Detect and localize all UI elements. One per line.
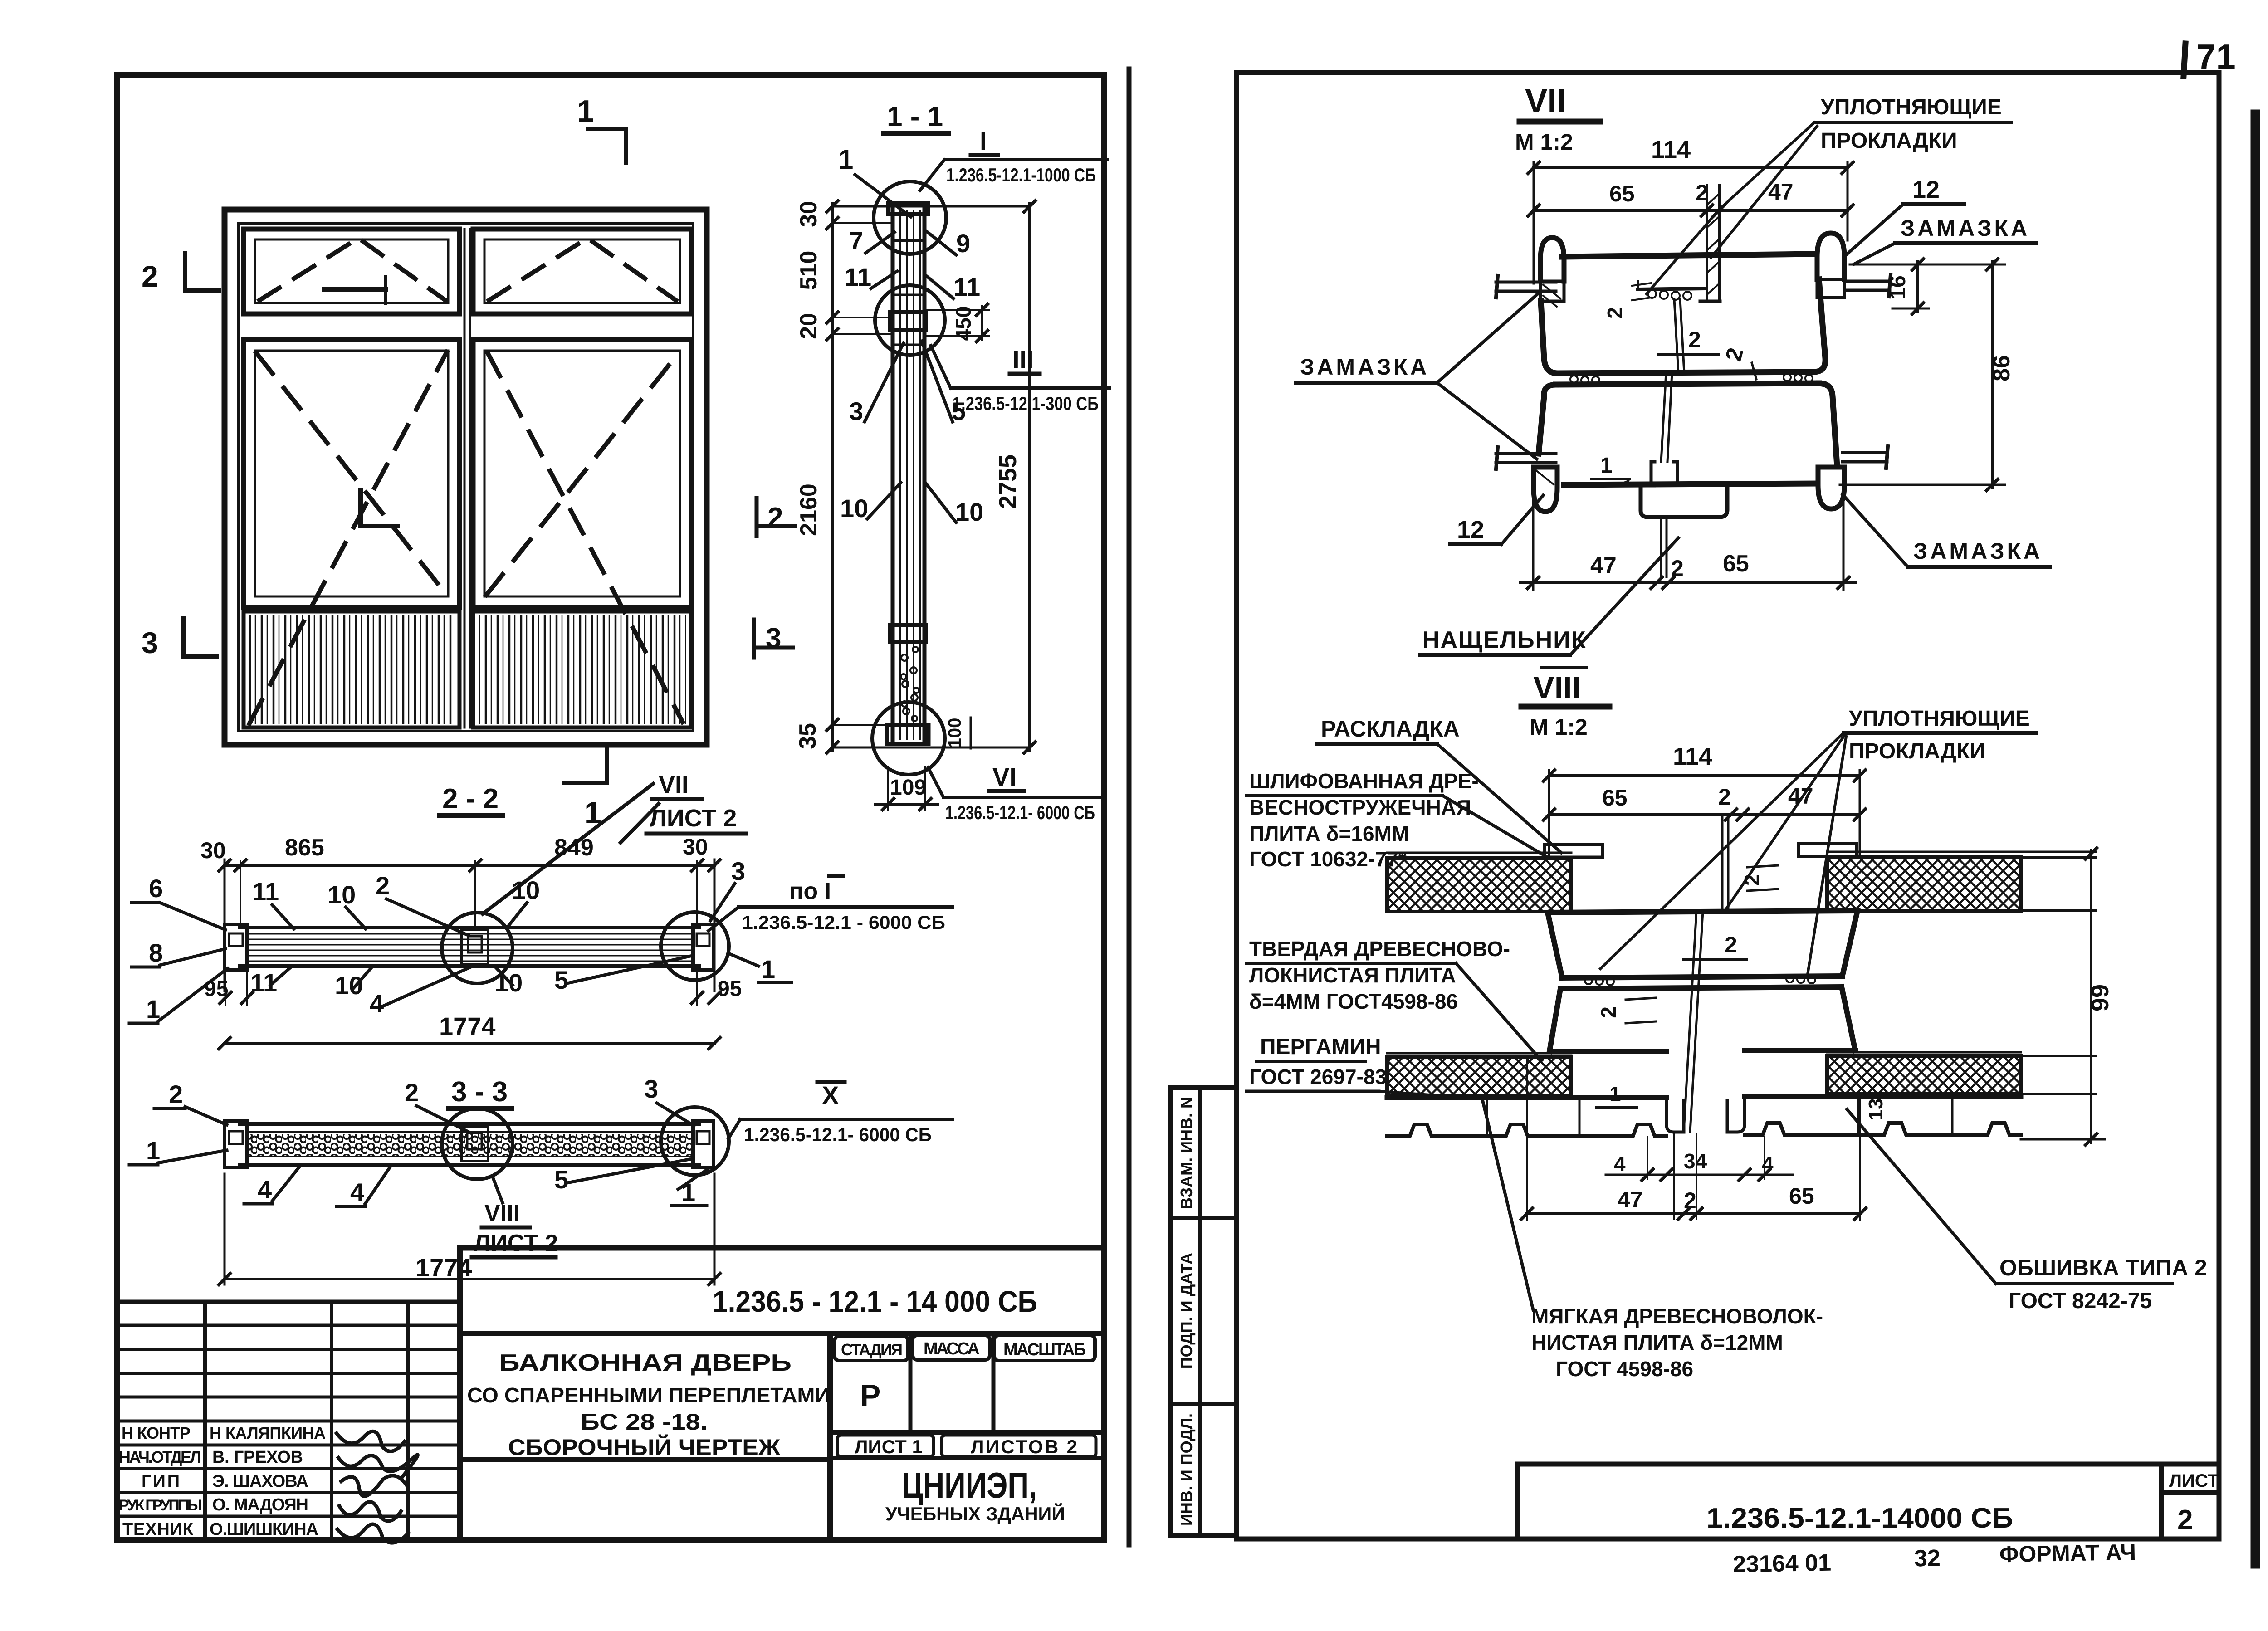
dim 114 VII [1527,136,1854,283]
left table rows [117,1325,460,1516]
label 2 center 3-3 [405,1078,471,1133]
center mullion [464,229,470,728]
label 5 [922,341,966,425]
svg-text:Р: Р [860,1378,880,1413]
svg-text:НАЧ.ОТДЕЛ: НАЧ.ОТДЕЛ [119,1448,201,1466]
svg-text:Н КОНТР: Н КОНТР [122,1424,191,1442]
label 4 left 3-3 [244,1166,300,1204]
label 95 right [690,971,742,1005]
svg-text:ШЛИФОВАННАЯ ДРЕ-: ШЛИФОВАННАЯ ДРЕ- [1249,769,1479,793]
row TEKHNIK [122,1520,318,1539]
svg-text:3 - 3: 3 - 3 [451,1076,508,1108]
svg-text:VII: VII [1525,82,1566,120]
dim 1774 of 2-2 [218,1012,721,1050]
sheathing planks bottom [1387,1097,2021,1136]
top board left (chipboard) [1387,853,1571,912]
label 10 bottom left [335,966,373,1000]
gasket bumps VIII [1585,975,1815,985]
svg-text:РУК ГРУППЫ: РУК ГРУППЫ [119,1497,202,1514]
dim line right of 1-1 with 2755 [994,200,1036,754]
page number 71 [2184,37,2236,77]
svg-text:12: 12 [1912,176,1940,203]
outer right thick line [2251,114,2260,1564]
section mark 2 right [757,498,795,536]
small dim 1 bottom VIII [1597,1082,1637,1108]
svg-text:30: 30 [683,834,708,859]
svg-text:99: 99 [2087,984,2114,1011]
svg-text:1: 1 [146,995,160,1023]
label obshivka tipa 2 [1847,1109,2207,1313]
label 3 [849,343,904,425]
svg-text:СО СПАРЕННЫМИ ПЕРЕПЛЕТАМИ: СО СПАРЕННЫМИ ПЕРЕПЛЕТАМИ [467,1383,830,1407]
main right door panel [473,339,691,607]
right sheet sidebar [1170,1088,1237,1535]
label 11 right [926,273,980,301]
left screw top [1496,276,1556,298]
svg-text:2: 2 [1671,556,1684,581]
label 4 bottom 2-2 [370,967,471,1018]
svg-text:ТЕХНИК: ТЕХНИК [122,1520,194,1539]
svg-text:65: 65 [1789,1183,1814,1209]
label 11 bottom [250,966,292,997]
svg-text:71: 71 [2196,37,2236,77]
svg-text:ИНВ. И ПОДЛ.: ИНВ. И ПОДЛ. [1177,1413,1196,1526]
svg-text:СТАДИЯ: СТАДИЯ [841,1340,903,1359]
top sash right bead [1817,233,1844,298]
handwritten notes below [1732,1539,2136,1578]
2-2 panel strip [240,928,699,966]
svg-text:2: 2 [767,502,783,533]
svg-text:65: 65 [1602,785,1628,811]
label myagkaya plita [1482,1099,1823,1381]
title text block [460,1350,830,1460]
VIII profile upper part [1548,911,1857,978]
svg-text:ЦНИИЭП,: ЦНИИЭП, [902,1465,1037,1505]
label 1 left 2-2 [129,968,228,1023]
svg-text:5: 5 [554,1165,568,1194]
label 1 right 2-2 [728,953,792,983]
dim 86 [1840,258,2015,492]
label 95 left [204,971,254,1005]
section mark 3 right [754,620,793,658]
signature scribbles [337,1431,418,1543]
organization name [885,1465,1065,1524]
callout X 6000SB [728,1081,953,1145]
svg-text:Э. ШАХОВА: Э. ШАХОВА [212,1472,308,1491]
svg-text:ВЗАМ. ИНВ. N: ВЗАМ. ИНВ. N [1177,1097,1196,1209]
svg-text:95: 95 [718,977,742,1001]
svg-text:1.236.5-12.1-14000 СБ: 1.236.5-12.1-14000 СБ [1706,1503,2013,1534]
raskladka tab right [1799,844,1857,856]
svg-text:СБОРОЧНЫЙ ЧЕРТЕЖ: СБОРОЧНЫЙ ЧЕРТЕЖ [508,1434,781,1460]
svg-text:12: 12 [1457,516,1484,543]
svg-text:1.236.5-12.1- 6000 СБ: 1.236.5-12.1- 6000 СБ [744,1124,932,1145]
svg-text:ЗАМАЗКА: ЗАМАЗКА [1300,354,1429,380]
svg-text:ТВЕРДАЯ ДРЕВЕСНОВО-: ТВЕРДАЯ ДРЕВЕСНОВО- [1249,937,1510,961]
dim 450 bracket [926,303,989,343]
3-3 insulated strip [240,1124,699,1165]
svg-text:δ=4ММ ГОСТ4598-86: δ=4ММ ГОСТ4598-86 [1249,990,1458,1013]
svg-text:11: 11 [252,877,279,906]
label 12 bottom left VII [1450,495,1543,544]
svg-text:1: 1 [577,94,594,128]
svg-text:1.236.5-12.1-1000 СБ: 1.236.5-12.1-1000 СБ [946,164,1096,186]
svg-text:849: 849 [554,835,594,861]
lower left bead VII [1534,467,1557,512]
svg-text:1.236.5-12.1-300 СБ: 1.236.5-12.1-300 СБ [953,393,1099,414]
svg-text:4: 4 [370,989,384,1018]
svg-text:1: 1 [1600,454,1613,478]
svg-text:8: 8 [149,938,163,967]
svg-text:МАСШТАБ: МАСШТАБ [1003,1340,1086,1359]
svg-text:О.ШИШКИНА: О.ШИШКИНА [210,1520,318,1539]
svg-text:УПЛОТНЯЮЩИЕ: УПЛОТНЯЮЩИЕ [1821,95,2002,119]
label uplotnyayushchie prokladki VII [1647,95,2011,294]
right title bar [1517,1464,2219,1539]
svg-text:1774: 1774 [415,1253,472,1282]
2-2 center block [462,930,488,964]
bottom slat band right [473,611,691,728]
label 3 right 3-3 [644,1074,694,1126]
svg-text:2: 2 [376,871,390,900]
svg-text:ЛИСТ 2: ЛИСТ 2 [474,1230,558,1256]
section 1 cut mark in transom [324,277,386,303]
svg-text:3: 3 [142,626,158,659]
svg-text:ПЕРГАМИН: ПЕРГАМИН [1260,1035,1381,1059]
stadia massa masshtab section [830,1333,1104,1540]
parting glass strip upper [1674,299,1684,373]
left table verticals [205,1302,408,1540]
svg-text:БС 28 -18.: БС 28 -18. [581,1409,708,1435]
detail VIII title [1521,668,1609,740]
right screw bottom [1843,446,1888,468]
small dim 2 top VIII [1740,865,1778,891]
svg-text:109: 109 [890,776,926,800]
svg-text:47: 47 [1590,552,1617,579]
section mark 3 left [142,619,217,659]
svg-text:РАСКЛАДКА: РАСКЛАДКА [1321,716,1460,742]
svg-text:МАССА: МАССА [924,1339,980,1358]
svg-text:О. МАДОЯН: О. МАДОЯН [212,1495,308,1514]
svg-text:47: 47 [1788,783,1813,809]
svg-text:2: 2 [1597,1006,1620,1018]
doc number header [460,1284,1104,1333]
label 11 left [845,263,897,291]
svg-text:32: 32 [1914,1545,1941,1572]
svg-text:3: 3 [731,857,745,885]
label 1 left 3-3 [129,1136,227,1165]
svg-text:НИСТАЯ ПЛИТА δ=12ММ: НИСТАЯ ПЛИТА δ=12ММ [1531,1331,1783,1354]
svg-text:VIII: VIII [484,1200,520,1226]
transom right panel [473,229,691,314]
svg-text:30: 30 [200,838,226,863]
label 4 center 3-3 [337,1166,391,1206]
transom left panel [244,229,459,314]
svg-text:10: 10 [512,876,540,904]
svg-text:1.236.5-12.1 - 6000 СБ: 1.236.5-12.1 - 6000 СБ [742,912,945,933]
left table outer top [117,1300,460,1304]
svg-text:ГОСТ 4598-86: ГОСТ 4598-86 [1556,1357,1693,1381]
label 10 right [925,483,983,526]
label uplotnyayushchie prokladki VIII [1600,707,2037,974]
svg-text:НАЩЕЛЬНИК: НАЩЕЛЬНИК [1422,627,1586,653]
svg-text:по I: по I [789,878,831,904]
nashchelnik center piece [1641,373,1727,577]
svg-text:МЯГКАЯ ДРЕВЕСНОВОЛОК-: МЯГКАЯ ДРЕВЕСНОВОЛОК- [1531,1304,1823,1328]
svg-text:2755: 2755 [994,454,1022,509]
svg-text:114: 114 [1651,136,1691,163]
dim 47 2 65 bottom VII [1520,491,1856,590]
dim line left of 1-1 [826,200,1030,754]
dim 65 2 47 VII [1527,179,1854,217]
svg-text:X: X [822,1081,839,1109]
svg-text:47: 47 [1618,1187,1643,1212]
svg-text:ФОРМАТ АЧ: ФОРМАТ АЧ [1999,1539,2136,1567]
svg-text:I: I [980,127,987,155]
raskladka tab left [1545,845,1603,857]
svg-text:VI: VI [992,762,1017,791]
3-3 left end cap [225,1121,247,1167]
label 7 [849,226,894,255]
door elevation outer frame [225,210,707,745]
svg-text:2: 2 [1688,327,1701,352]
svg-text:4: 4 [1614,1152,1626,1176]
label 10 top left [327,880,366,929]
detail circle III middle [875,285,945,355]
label nashchelnik [1420,538,1678,655]
svg-text:БАЛКОННАЯ ДВЕРЬ: БАЛКОННАЯ ДВЕРЬ [499,1350,792,1376]
section mark 1 top [577,94,626,162]
label 9 [925,229,970,258]
2-2 right end cap [693,924,714,970]
label pergamin [1246,1035,1481,1099]
label 2 top 2-2 [376,871,468,935]
small dim 2 left rot VIII [1597,998,1656,1023]
2-2 top dim line [218,859,721,991]
dim 1774 of 3-3 [218,1174,721,1286]
title block header line [460,1248,1104,1540]
svg-text:5: 5 [554,966,568,994]
svg-text:ПРОКЛАДКИ: ПРОКЛАДКИ [1849,739,1985,763]
top sash left bead [1540,238,1564,307]
svg-text:УПЛОТНЯЮЩИЕ: УПЛОТНЯЮЩИЕ [1849,707,2030,731]
left sheet border [117,75,1104,1540]
svg-text:ЛИСТ: ЛИСТ [2169,1471,2219,1491]
2-2 left end cap [225,924,247,970]
svg-text:Н КАЛЯПКИНА: Н КАЛЯПКИНА [210,1424,326,1442]
svg-text:7: 7 [849,226,863,255]
svg-text:1: 1 [838,144,853,175]
svg-text:ПЛИТА δ=16ММ: ПЛИТА δ=16ММ [1249,822,1409,845]
3-3 center block [462,1127,488,1161]
svg-text:2: 2 [169,1080,183,1108]
label tvyordaya plita [1246,937,1541,1060]
svg-text:2: 2 [1718,784,1731,810]
svg-text:ЛОКНИСТАЯ ПЛИТА: ЛОКНИСТАЯ ПЛИТА [1249,963,1456,987]
svg-text:3: 3 [644,1074,658,1103]
VIII profile lower part [1549,987,1855,1051]
2-2 center detail circle [442,913,513,983]
svg-text:510: 510 [796,251,822,290]
row RUK GRUPPY [119,1495,308,1514]
callout I 1000SB [920,127,1107,190]
label 10 top right [507,876,540,928]
glass strip VIII [1684,816,1728,1132]
svg-text:9: 9 [956,229,970,258]
left leaf dashed diagonals [249,352,447,723]
section 2-2 title [439,783,503,815]
bottom board left [1387,1053,1571,1096]
svg-text:ПРОКЛАДКИ: ПРОКЛАДКИ [1821,129,1957,153]
callout VIII list2 below 3-3 [472,1176,558,1257]
svg-text:ЛИСТ 2: ЛИСТ 2 [650,805,737,832]
svg-text:2: 2 [1603,307,1627,319]
left screw bottom [1496,447,1556,469]
dim 16 [1886,258,1929,315]
label 3 right 2-2 [710,857,745,921]
callout po I 6000SB [709,876,953,933]
svg-text:4: 4 [258,1175,272,1204]
svg-text:2160: 2160 [796,483,822,536]
svg-text:100: 100 [945,718,965,748]
dim 114 VIII [1542,743,1867,857]
svg-text:ПОДП. И ДАТА: ПОДП. И ДАТА [1177,1253,1196,1369]
label raskladka [1317,716,1561,853]
top sash body [1541,279,1825,373]
detail VII title [1515,82,1600,155]
label 1 callout at top circle [838,144,911,217]
3-3 right end cap [693,1121,714,1167]
svg-text:1: 1 [1609,1082,1621,1106]
svg-text:20: 20 [796,313,822,339]
svg-text:11: 11 [953,273,980,301]
label 1 right 3-3 [671,1169,708,1206]
svg-text:10: 10 [327,880,356,909]
row N KONTR [122,1424,326,1442]
detail circle I top [874,181,946,254]
right screw top [1845,275,1891,297]
2-2 right detail circle [661,912,729,980]
dim 99 [2021,847,2114,1146]
svg-text:23164 01: 23164 01 [1733,1550,1832,1578]
section 1-1 frame strip [887,203,929,744]
transom left dashed opening lines [259,238,445,300]
svg-text:ГОСТ 2697-83: ГОСТ 2697-83 [1249,1065,1387,1089]
svg-text:2: 2 [2177,1504,2193,1536]
label shlifovannaya plita [1246,769,1546,871]
svg-text:11: 11 [845,263,871,291]
svg-text:ЛИСТОВ 2: ЛИСТОВ 2 [971,1436,1077,1457]
3-3 center detail circle [442,1108,513,1179]
section mark 1 bottom [564,745,607,830]
svg-text:ГИП: ГИП [142,1472,180,1491]
dim 100 bottom right of strip [945,718,971,748]
svg-text:УЧЕБНЫХ ЗДАНИЙ: УЧЕБНЫХ ЗДАНИЙ [885,1503,1065,1524]
label zamazka bottom right [1843,494,2050,567]
top sash top face [1562,254,1816,257]
gasket bumps between sashes [1570,374,1813,384]
glazing step shelf [1638,281,1704,300]
svg-text:114: 114 [1673,743,1712,770]
row GIP [142,1472,308,1491]
svg-text:34: 34 [1684,1149,1707,1173]
label zamazka top right [1854,215,2037,264]
dim 4 34 4 [1606,1137,1793,1182]
row NACH OTDEL [119,1448,303,1467]
section mark 2 left [142,253,219,293]
small dim 2 mid VIII [1684,932,1746,960]
svg-text:86: 86 [1989,355,2015,381]
svg-text:2: 2 [1725,932,1737,957]
bottom slat band left [244,611,459,728]
transom right dashed opening lines [489,238,676,300]
dim 47 2 65 VIII [1520,1057,1867,1221]
svg-text:М 1:2: М 1:2 [1515,129,1573,155]
dim 65 2 47 VIII [1542,783,1867,821]
callout VI 6000SB [928,762,1102,823]
svg-text:ГОСТ 8242-75: ГОСТ 8242-75 [2009,1289,2152,1313]
central channel top VII [1700,185,1720,301]
svg-text:1.236.5-12.1- 6000 СБ: 1.236.5-12.1- 6000 СБ [945,802,1095,823]
svg-text:13: 13 [1865,1099,1887,1121]
svg-text:В. ГРЕХОВ: В. ГРЕХОВ [212,1448,303,1467]
main left door panel [244,339,459,607]
label 10 bottom right [494,966,523,997]
label 11 top [252,877,294,929]
3-3 right detail circle [661,1107,729,1175]
svg-text:35: 35 [795,723,821,749]
callout III 300SB [931,345,1109,414]
svg-text:III: III [1012,345,1034,374]
svg-text:1: 1 [761,955,775,983]
label zamazka left [1295,294,1538,459]
svg-text:865: 865 [285,835,324,861]
small dim 1 lower [1591,454,1655,486]
svg-text:16: 16 [1886,275,1910,299]
section 3-3 title [448,1076,512,1108]
svg-text:47: 47 [1768,179,1794,205]
label 2 left 3-3 [154,1080,227,1125]
svg-text:10: 10 [840,494,868,523]
leader to VII list2 label [483,784,653,914]
bottom board right [1827,1052,2096,1094]
svg-text:2 - 2: 2 - 2 [442,783,499,815]
svg-text:6: 6 [149,874,163,903]
svg-text:30: 30 [796,201,822,227]
svg-text:2: 2 [142,259,158,293]
svg-text:10: 10 [335,971,363,1000]
svg-text:ЛИСТ 1: ЛИСТ 1 [855,1436,923,1457]
small dim 2 upper center [1603,283,1651,319]
svg-text:ОБШИВКА ТИПА 2: ОБШИВКА ТИПА 2 [1999,1255,2207,1280]
svg-text:10: 10 [955,498,983,526]
svg-text:3: 3 [849,397,863,425]
label 5 bottom 2-2 [554,956,690,994]
right sheet border [1237,73,2219,1539]
small dim 2 mid center [1658,327,1718,355]
svg-text:1 - 1: 1 - 1 [887,101,943,132]
svg-text:ЗАМАЗКА: ЗАМАЗКА [1901,215,2030,241]
door elevation inner frame [239,223,693,731]
svg-text:ВЕСНОСТРУЖЕЧНАЯ: ВЕСНОСТРУЖЕЧНАЯ [1249,796,1471,819]
svg-text:1: 1 [146,1136,160,1165]
svg-text:2: 2 [1740,874,1764,886]
small dim 2 tilted [1721,345,1756,379]
label 8 [132,938,225,967]
svg-text:ГОСТ 10632-77*: ГОСТ 10632-77* [1249,847,1407,871]
svg-text:VII: VII [659,771,689,798]
label 12 top right VII [1847,176,1964,254]
